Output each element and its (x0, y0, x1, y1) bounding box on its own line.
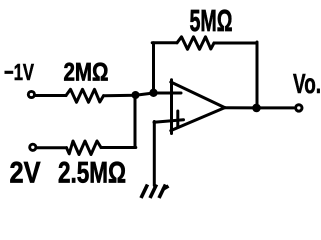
wire (214, 42, 257, 45)
resistor R1 2M (66, 89, 104, 102)
svg-text:2.5MΩ: 2.5MΩ (58, 157, 126, 190)
node junction dot output (252, 104, 261, 113)
wire (256, 42, 259, 108)
svg-text:5MΩ: 5MΩ (190, 3, 233, 38)
wire output (225, 106, 294, 109)
wire (152, 43, 155, 92)
op-amp plus sign (176, 111, 179, 127)
svg-text:2V: 2V (10, 157, 41, 190)
output terminal Vo (296, 105, 302, 111)
ground (141, 185, 169, 199)
input terminal -1V (28, 91, 34, 97)
node junction dot B (149, 89, 157, 97)
wire (35, 94, 66, 97)
resistor R2 2.5M (67, 141, 102, 155)
wire (153, 122, 156, 186)
svg-text:−1V: −1V (4, 59, 34, 85)
op-amp U1 (171, 80, 225, 134)
wire (101, 146, 136, 149)
svg-text:Vo.: Vo. (293, 68, 321, 99)
wire (152, 41, 177, 44)
wire noninverting input (154, 120, 184, 123)
input terminal 2V (30, 144, 36, 150)
svg-text:2MΩ: 2MΩ (64, 59, 109, 87)
resistor R3 5M (177, 37, 214, 50)
node junction dot A (132, 91, 140, 99)
wire (104, 93, 182, 96)
wire (134, 95, 137, 148)
wire (37, 146, 67, 149)
